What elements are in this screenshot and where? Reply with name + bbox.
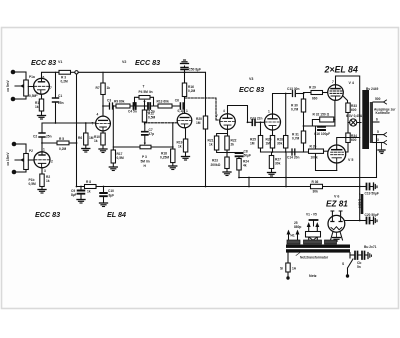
- svg-text:0,5M: 0,5M: [117, 156, 125, 160]
- cathode resistor R2: [40, 168, 44, 189]
- svg-text:4: 4: [97, 113, 99, 117]
- anode V5 to transformer bottom: [337, 138, 360, 146]
- twisted pair cross: [310, 238, 317, 244]
- capacitor C2: [39, 133, 45, 137]
- label ca 5mV: [6, 79, 10, 91]
- svg-text:1k: 1k: [209, 143, 213, 147]
- svg-text:P 3: P 3: [142, 155, 147, 159]
- C8 cathode bypass: [226, 152, 243, 159]
- svg-text:0,2M: 0,2M: [188, 89, 196, 93]
- cap C12: [247, 119, 265, 125]
- mains transformer: [286, 240, 350, 253]
- svg-text:1k: 1k: [94, 139, 98, 143]
- svg-text:R7: R7: [96, 86, 100, 90]
- svg-text:C10: C10: [108, 189, 114, 193]
- svg-text:1k: 1k: [107, 86, 111, 90]
- resistor R21a 1k: [214, 136, 227, 157]
- filter cap C10: [100, 186, 107, 203]
- svg-text:2: 2: [36, 93, 38, 97]
- svg-text:7: 7: [50, 86, 52, 90]
- svg-text:1k: 1k: [46, 179, 50, 183]
- cathode R10: [101, 131, 105, 149]
- anode pins: [331, 211, 342, 217]
- svg-text:7: 7: [92, 122, 94, 126]
- cap C14: [288, 149, 304, 155]
- svg-text:1k: 1k: [35, 105, 39, 109]
- resistor R16: [182, 73, 186, 97]
- resistor R20: [203, 116, 207, 187]
- filament wires down to transformer: [331, 232, 343, 241]
- svg-text:1k: 1k: [178, 145, 182, 149]
- svg-text:0,1µ: 0,1µ: [178, 109, 185, 113]
- resistor R13: [158, 104, 172, 108]
- svg-text:V1: V1: [58, 60, 62, 64]
- svg-text:R23: R23: [212, 159, 218, 163]
- svg-text:1: 1: [268, 110, 270, 114]
- suppression caps: [350, 254, 355, 256]
- svg-text:30k: 30k: [313, 190, 319, 194]
- mixing wire to V2a grid: [42, 122, 96, 124]
- dashed shielded wire to V3a grid: [185, 98, 220, 120]
- svg-text:2: 2: [51, 160, 53, 164]
- svg-text:30k: 30k: [277, 142, 283, 146]
- tube V4 EL84: [328, 85, 344, 101]
- resistor R36 on rail A: [311, 184, 323, 188]
- anode line up with C2: [41, 123, 43, 151]
- svg-text:C3: C3: [107, 99, 111, 103]
- svg-text:ECC 83: ECC 83: [135, 58, 160, 67]
- cap C7: [142, 124, 148, 145]
- choke wire down to tube: [345, 194, 360, 221]
- svg-text:100k: 100k: [311, 156, 318, 160]
- svg-text:C14 20n: C14 20n: [287, 156, 299, 160]
- input jack lower: [11, 97, 26, 102]
- svg-text:880p: 880p: [294, 225, 301, 229]
- anode V2b up through R16: [184, 97, 186, 114]
- svg-text:R9 80k: R9 80k: [114, 100, 125, 104]
- svg-text:C19 50µF: C19 50µF: [365, 192, 379, 196]
- svg-text:P1a: P1a: [29, 75, 35, 79]
- cathode junction: [217, 129, 228, 136]
- wire wiper to grid: [28, 159, 34, 161]
- svg-text:660: 660: [312, 97, 318, 101]
- svg-text:1A: 1A: [292, 267, 297, 271]
- svg-text:25n: 25n: [46, 135, 52, 139]
- svg-text:R 8: R 8: [86, 180, 91, 184]
- svg-text:0,25M: 0,25M: [160, 156, 169, 160]
- tube V3a: [220, 114, 236, 130]
- ground under R2: [38, 190, 46, 194]
- anode wire V3b to C13: [273, 94, 292, 115]
- tone main wire: [103, 105, 180, 107]
- capacitor C1: [53, 72, 59, 123]
- svg-text:C20 50µF: C20 50µF: [365, 213, 379, 217]
- svg-text:ECC 83: ECC 83: [239, 85, 264, 94]
- screen chain R33 lamp R34: [343, 96, 348, 104]
- svg-text:5M lin: 5M lin: [141, 160, 150, 164]
- svg-text:1M: 1M: [196, 121, 201, 125]
- ground under R10: [99, 149, 107, 153]
- svg-text:47p: 47p: [149, 132, 155, 136]
- svg-text:25n: 25n: [58, 101, 64, 105]
- R22 200k: [225, 157, 229, 172]
- R34: [346, 123, 351, 153]
- label ECC 83 V3: [239, 77, 264, 94]
- svg-text:ca 5mV: ca 5mV: [6, 79, 10, 91]
- svg-text:EZ 81: EZ 81: [326, 200, 348, 209]
- anode wire L to C12: [228, 106, 248, 123]
- mains terminal left: [286, 276, 289, 279]
- cap C6: [180, 103, 183, 109]
- secondary tap 500: [373, 101, 384, 103]
- svg-text:3: 3: [377, 138, 379, 142]
- resistor R8 on rail A: [85, 185, 97, 189]
- svg-text:C16 100µF: C16 100µF: [314, 132, 330, 136]
- rail B y179: [239, 177, 377, 179]
- potentiometer P3: [113, 145, 173, 149]
- rail A y186.5: [77, 186, 360, 188]
- svg-text:0,7M: 0,7M: [292, 137, 300, 141]
- svg-text:50µF: 50µF: [244, 154, 251, 158]
- svg-text:3: 3: [44, 169, 46, 173]
- svg-text:R6: R6: [78, 136, 82, 140]
- switch S: [349, 253, 351, 258]
- svg-text:P4 5M lin: P4 5M lin: [139, 90, 153, 94]
- resistor R21b 2k: [225, 136, 229, 150]
- svg-text:ca 15mV: ca 15mV: [6, 152, 10, 166]
- svg-text:8µF: 8µF: [71, 193, 77, 197]
- input jack upper (ch2): [12, 142, 26, 147]
- svg-text:V2: V2: [122, 60, 126, 64]
- grid leak chain R30 R31: [301, 94, 305, 132]
- potentiometer P1b: [15, 154, 28, 170]
- input jack lower (ch2): [12, 170, 26, 175]
- svg-text:H1: H1: [291, 234, 295, 238]
- label EZ81 V6: [326, 195, 348, 209]
- svg-text:1M: 1M: [250, 142, 255, 146]
- ground above C50 (inverted): [181, 60, 189, 64]
- svg-text:2×EL 84: 2×EL 84: [324, 64, 358, 74]
- wires to pot: [25, 144, 27, 172]
- svg-text:4k: 4k: [243, 164, 247, 168]
- anode node to tone wire: [102, 106, 104, 116]
- ground under R6: [82, 149, 90, 153]
- potentiometer P1a: [15, 80, 28, 96]
- capacitor C3: [110, 103, 113, 109]
- svg-text:ECC 83: ECC 83: [31, 58, 56, 67]
- feedback line down from tap 5: [376, 135, 378, 178]
- choke: [361, 194, 364, 214]
- svg-text:T: T: [143, 85, 145, 89]
- grid leak resistors R25 R26 R28: [258, 121, 262, 152]
- tube V1a: [34, 78, 50, 94]
- heater label V1-V5: [306, 213, 317, 217]
- wire jack to pot: [25, 72, 27, 99]
- anode wire V4 to transformer: [336, 76, 360, 194]
- svg-text:V3: V3: [249, 77, 253, 81]
- svg-text:C12 22n: C12 22n: [250, 117, 262, 121]
- svg-text:C6: C6: [175, 99, 179, 103]
- wire cathode V5: [316, 126, 337, 171]
- pilot lamp: [348, 119, 361, 126]
- ground at tube bottom: [333, 232, 341, 241]
- svg-text:1: 1: [43, 148, 45, 152]
- ground under R27: [268, 173, 276, 177]
- svg-text:8µF: 8µF: [109, 194, 115, 198]
- wire R3 to B+ junction circle: [71, 71, 75, 73]
- svg-text:0,2M: 0,2M: [59, 147, 67, 151]
- ground under R22: [223, 172, 231, 176]
- svg-text:1: 1: [186, 109, 188, 113]
- fuse Si: [287, 253, 289, 263]
- ground under R18: [169, 166, 177, 170]
- cathode V5 down: [336, 163, 338, 171]
- svg-text:C13 30n: C13 30n: [287, 87, 299, 91]
- label ECC 83 V2: [122, 58, 160, 67]
- svg-text:4: 4: [223, 109, 225, 113]
- svg-text:600: 600: [351, 108, 357, 112]
- svg-text:Si: Si: [280, 267, 283, 271]
- heater arrows up: [308, 224, 319, 243]
- potentiometer P4 treble: [135, 96, 154, 107]
- secondary tap 3 with ground: [373, 142, 384, 144]
- svg-text:ECC 83: ECC 83: [35, 210, 60, 219]
- wire B+ vertical x76.5: [76, 74, 78, 187]
- cap C4 (series blob): [134, 103, 136, 109]
- svg-text:600: 600: [351, 138, 357, 142]
- svg-text:6,3V 0,45A: 6,3V 0,45A: [346, 114, 363, 118]
- C50 cap to ground (top): [181, 66, 188, 73]
- svg-text:R 36: R 36: [312, 180, 319, 184]
- output transformer: [362, 90, 373, 149]
- svg-text:C4 5n: C4 5n: [128, 110, 137, 114]
- svg-text:6: 6: [376, 118, 378, 122]
- svg-text:R 5: R 5: [59, 137, 64, 141]
- cap C20: [359, 218, 373, 224]
- cathode resistor R1: [39, 94, 43, 115]
- svg-text:7: 7: [216, 114, 218, 118]
- ground under R19: [182, 157, 190, 161]
- svg-text:5n: 5n: [357, 265, 361, 269]
- svg-text:V 5: V 5: [348, 158, 353, 162]
- grid leak R6: [84, 122, 88, 148]
- bottom labels: [35, 210, 126, 219]
- svg-text:Netztransformator: Netztransformator: [300, 256, 329, 260]
- connector x249: [248, 178, 250, 187]
- tube EZ81: [328, 215, 345, 232]
- svg-text:0,2M: 0,2M: [61, 80, 69, 84]
- svg-text:Bu 2x71: Bu 2x71: [364, 245, 377, 249]
- svg-text:V 6: V 6: [334, 195, 339, 199]
- wire pot wiper to grid: [28, 86, 34, 88]
- label ECC 83 V1: [31, 58, 62, 67]
- cathode network R32 C16: [334, 100, 336, 126]
- svg-text:C1: C1: [58, 94, 62, 98]
- svg-text:0,7M: 0,7M: [291, 108, 299, 112]
- tube V1b: [34, 152, 50, 168]
- tube V2a: [96, 116, 111, 131]
- heater arrows up left: [287, 231, 298, 242]
- cap C13: [293, 91, 304, 97]
- svg-text:R 32 150 Ω: R 32 150 Ω: [313, 113, 330, 117]
- junction bus y152: [261, 151, 304, 153]
- secondary tap 5 (feedback): [373, 134, 384, 136]
- tube V5 EL84: [328, 145, 346, 163]
- resistor R3: [59, 70, 71, 74]
- svg-text:Netz: Netz: [309, 274, 317, 278]
- svg-text:500: 500: [375, 97, 381, 101]
- tube V3b: [265, 114, 281, 130]
- dropper chain x205.5: [205, 73, 207, 117]
- svg-text:2k: 2k: [231, 143, 235, 147]
- grid wire V5 through R35: [304, 149, 329, 153]
- heater T-bar: [310, 220, 318, 226]
- svg-text:30k: 30k: [275, 162, 281, 166]
- tube V2b: [177, 113, 192, 128]
- svg-text:0,5M: 0,5M: [29, 182, 37, 186]
- svg-text:1k: 1k: [87, 190, 91, 194]
- secondary tap 6: [373, 121, 379, 123]
- svg-text:0,5M: 0,5M: [148, 116, 156, 120]
- cap C19 on rail A end: [359, 184, 373, 190]
- svg-text:5: 5: [377, 130, 379, 134]
- junction terminal circle: [75, 71, 78, 74]
- R7 vertical: [101, 72, 105, 114]
- svg-text:R13 60k: R13 60k: [157, 100, 169, 104]
- cap C5 (series blob): [148, 103, 150, 109]
- svg-text:7: 7: [332, 80, 334, 84]
- svg-text:Kontrolle: Kontrolle: [376, 111, 390, 115]
- top rail stage2: [78, 71, 205, 73]
- resistor R9: [116, 104, 130, 108]
- svg-text:V 4: V 4: [349, 81, 354, 85]
- resistor R29 grid stopper: [304, 91, 329, 95]
- dashed grid wire V2b: [145, 122, 177, 124]
- R12 below P4 wiper: [142, 105, 146, 124]
- R17 from tone wire down: [111, 105, 115, 166]
- heater series box: [306, 232, 321, 238]
- R18 hanging at junction: [171, 123, 175, 166]
- label Netz: [309, 274, 317, 278]
- svg-text:V1 - V5: V1 - V5: [306, 213, 317, 217]
- svg-text:C2: C2: [33, 135, 37, 139]
- cathode R19: [183, 128, 187, 156]
- svg-text:Bv 2449: Bv 2449: [366, 87, 378, 91]
- svg-text:6: 6: [43, 76, 45, 80]
- label 2xEL84: [324, 64, 358, 85]
- R27 to ground: [269, 152, 273, 172]
- svg-text:200kΩ: 200kΩ: [211, 163, 221, 167]
- svg-text:C50 8µF: C50 8µF: [189, 68, 202, 72]
- ground under R17: [109, 167, 117, 171]
- resistor R5 plate load: [41, 141, 77, 145]
- svg-text:1M: 1M: [266, 142, 271, 146]
- anode wire up: [42, 72, 60, 79]
- input jack upper: [11, 70, 26, 75]
- svg-text:R 29: R 29: [309, 86, 316, 90]
- svg-text:R 35: R 35: [310, 145, 317, 149]
- svg-text:P2: P2: [29, 149, 33, 153]
- R23 4k: [237, 159, 241, 178]
- wire x286 down to rail B: [285, 152, 287, 187]
- label ca 15mV: [6, 152, 10, 166]
- svg-text:EL 84: EL 84: [107, 210, 126, 219]
- filter cap C9: [78, 186, 85, 199]
- ground under R1: [38, 116, 46, 120]
